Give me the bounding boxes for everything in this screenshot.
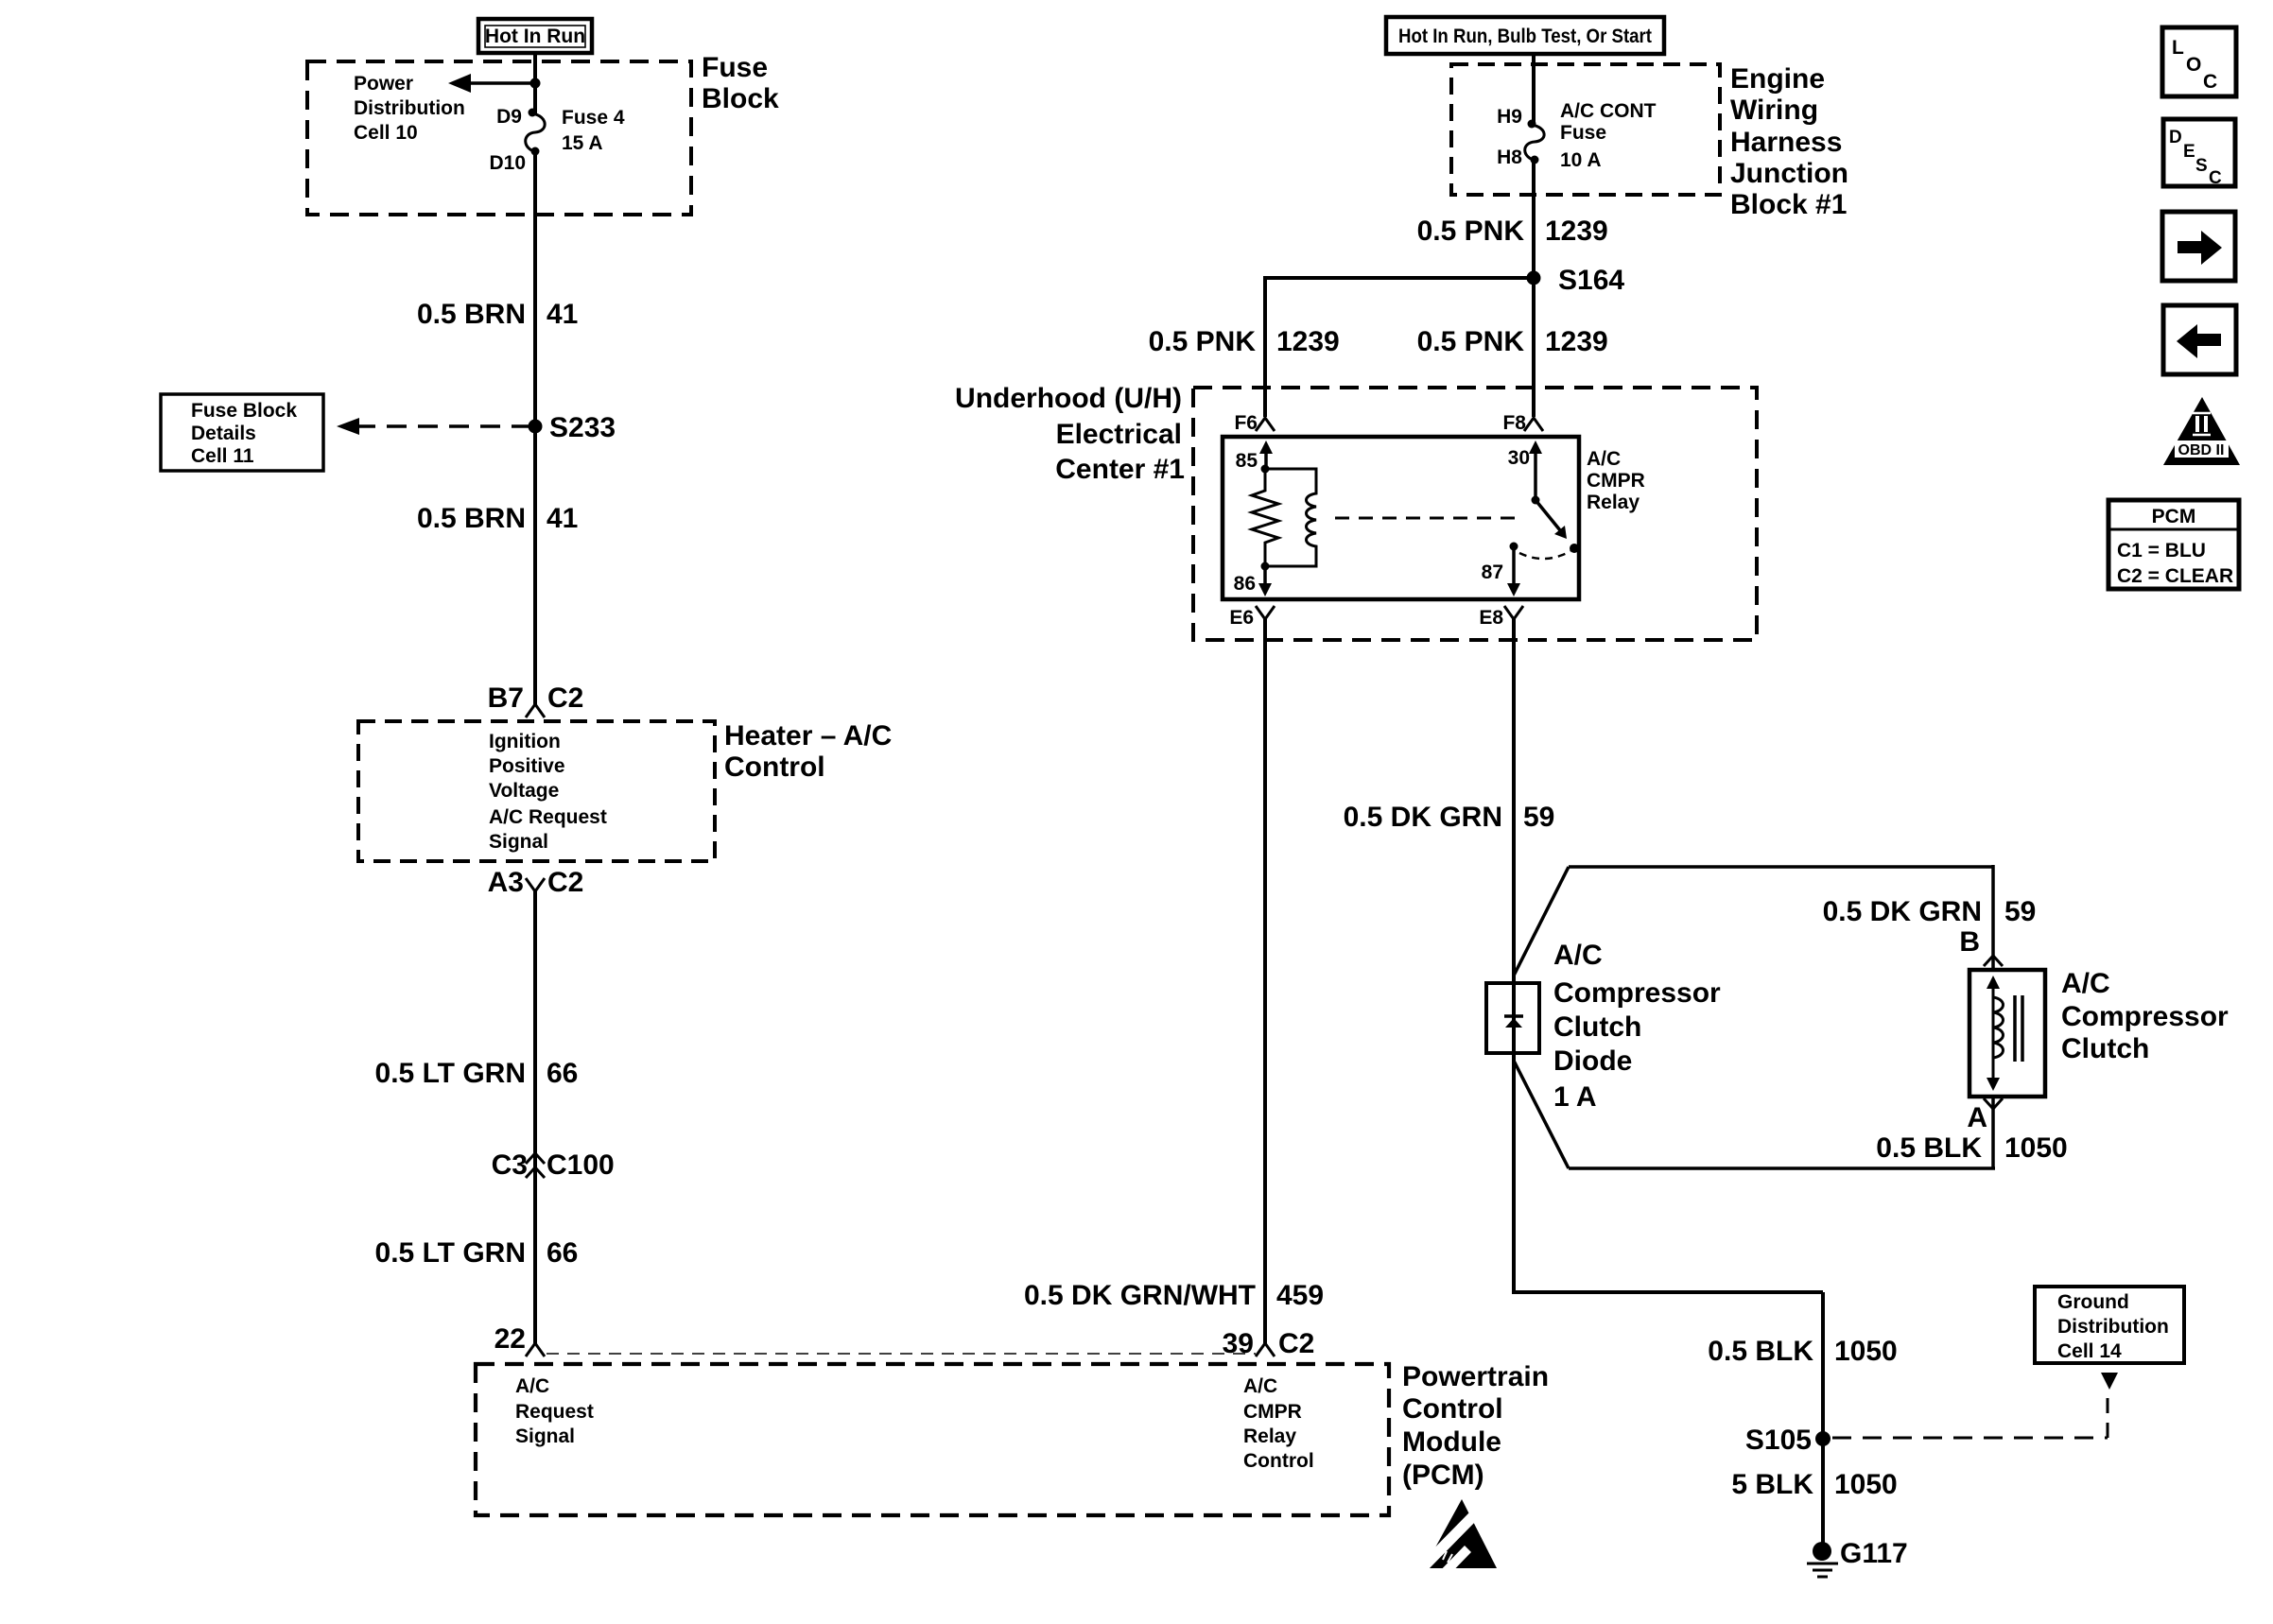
clutch coil and plates — [1987, 976, 2022, 1091]
svg-text:C100: C100 — [547, 1149, 615, 1181]
svg-text:Hot In Run, Bulb Test, Or Star: Hot In Run, Bulb Test, Or Start — [1398, 26, 1652, 47]
svg-text:1050: 1050 — [1834, 1469, 1898, 1500]
svg-text:22: 22 — [495, 1323, 526, 1355]
svg-text:Power: Power — [354, 73, 413, 95]
label pin A/C Request Signal (PCM) — [515, 1375, 594, 1447]
wire 0.5 BRN 41 from fuse to B7 — [533, 151, 537, 704]
svg-text:1239: 1239 — [1545, 216, 1608, 247]
svg-text:(PCM): (PCM) — [1402, 1460, 1484, 1491]
svg-text:Fuse: Fuse — [702, 52, 768, 83]
svg-text:C: C — [2203, 71, 2217, 93]
svg-text:Cell 11: Cell 11 — [191, 445, 254, 467]
svg-text:66: 66 — [547, 1237, 578, 1269]
label 0.5 BLK 1050 clutch — [1876, 1132, 2067, 1164]
icon OBD II triangle — [2163, 397, 2240, 465]
label Fuse Block — [702, 52, 779, 114]
pin 87 (relay NO contact) — [1482, 543, 1520, 597]
svg-text:Diode: Diode — [1553, 1045, 1632, 1077]
svg-text:C1 = BLU: C1 = BLU — [2117, 540, 2206, 561]
label Engine Wiring Harness Junction Block #1 — [1730, 63, 1848, 220]
label 0.5 LT GRN 66 lower — [375, 1237, 579, 1269]
svg-text:1239: 1239 — [1276, 326, 1340, 357]
svg-text:C: C — [2209, 168, 2222, 188]
pin 22 connector into PCM — [495, 1323, 545, 1356]
svg-text:L: L — [2172, 37, 2184, 59]
svg-text:30: 30 — [1508, 447, 1530, 469]
svg-text:CMPR: CMPR — [1243, 1401, 1302, 1423]
label A/C Compressor Clutch — [2061, 968, 2229, 1064]
icon LOC box — [2162, 27, 2236, 96]
svg-text:E: E — [2183, 142, 2195, 162]
label pins Ignition Positive Voltage / A/C Request Signal — [489, 731, 607, 853]
svg-text:0.5 DK GRN/WHT: 0.5 DK GRN/WHT — [1024, 1280, 1256, 1311]
svg-text:59: 59 — [1523, 802, 1554, 833]
label 0.5 DK GRN/WHT 459 — [1024, 1280, 1324, 1311]
pin E8 connector — [1479, 606, 1523, 629]
svg-text:0.5 PNK: 0.5 PNK — [1417, 216, 1525, 247]
label 5 BLK 1050 — [1731, 1469, 1897, 1500]
ESD warning symbol — [1417, 1499, 1497, 1584]
svg-text:A/C: A/C — [1243, 1375, 1277, 1397]
svg-text:0.5 BLK: 0.5 BLK — [1708, 1336, 1813, 1367]
pin D10 — [489, 147, 539, 175]
icon back arrow box — [2163, 305, 2236, 374]
pin H8 — [1497, 147, 1538, 168]
svg-text:A/C: A/C — [1587, 448, 1621, 470]
label 0.5 PNK 1239 left branch — [1149, 326, 1340, 357]
node S105 splice — [1745, 1425, 1831, 1456]
svg-text:G117: G117 — [1840, 1538, 1908, 1569]
svg-text:Relay: Relay — [1243, 1425, 1296, 1447]
fuse F4 element (s-curve) — [526, 113, 545, 152]
svg-text:0.5 BLK: 0.5 BLK — [1876, 1132, 1982, 1164]
svg-text:Junction: Junction — [1730, 158, 1848, 189]
svg-text:C2: C2 — [547, 682, 583, 714]
wire from Hot In Run to fuse — [533, 53, 537, 114]
svg-text:59: 59 — [2004, 896, 2036, 927]
pin H9 — [1497, 106, 1536, 129]
svg-text:41: 41 — [547, 299, 578, 330]
icon DESC box — [2163, 119, 2235, 188]
label Powertrain Control Module (PCM) — [1402, 1361, 1549, 1491]
label A/C CMPR Relay — [1587, 448, 1645, 513]
svg-text:A/C: A/C — [1553, 940, 1603, 971]
svg-text:Block #1: Block #1 — [1730, 189, 1847, 220]
wire 0.5 PNK 1239 from fuse to S164 — [1532, 160, 1536, 417]
svg-text:C2: C2 — [547, 867, 583, 898]
node junction dot at fuse feed — [530, 78, 541, 89]
svg-text:Cell 10: Cell 10 — [354, 122, 418, 144]
svg-text:1239: 1239 — [1545, 326, 1608, 357]
pin A connector — [1967, 1098, 2003, 1133]
wire arrow to Power Distribution — [448, 74, 535, 93]
svg-text:Voltage: Voltage — [489, 780, 559, 802]
svg-text:5 BLK: 5 BLK — [1731, 1469, 1813, 1500]
svg-text:A/C: A/C — [2061, 968, 2110, 999]
pin 30 (relay common) — [1508, 441, 1542, 505]
diode A/C compressor clutch diode box — [1486, 983, 1539, 1053]
svg-text:Center #1: Center #1 — [1055, 454, 1185, 485]
svg-text:10 A: 10 A — [1560, 149, 1602, 171]
pin 39 C2 connector — [1223, 1328, 1315, 1359]
PCM dashed box — [476, 1364, 1389, 1515]
svg-text:B: B — [1959, 926, 1980, 958]
heater a/c control dashed box — [358, 721, 715, 861]
label Heater - A/C Control — [724, 720, 892, 783]
svg-text:66: 66 — [547, 1058, 578, 1089]
svg-text:Powertrain: Powertrain — [1402, 1361, 1549, 1392]
svg-text:Engine: Engine — [1730, 63, 1825, 95]
pin B connector — [1959, 926, 2003, 966]
svg-text:0.5 PNK: 0.5 PNK — [1417, 326, 1525, 357]
svg-text:Compressor: Compressor — [2061, 1001, 2229, 1032]
node Fuse Block Details Cell 11 box — [161, 394, 323, 471]
svg-text:Compressor: Compressor — [1553, 977, 1721, 1009]
wire 0.5 DK GRN/WHT 459 from E6 to PCM pin 39 — [1263, 619, 1267, 1343]
node Ground Distribution Cell 14 box — [2035, 1287, 2184, 1363]
svg-text:S233: S233 — [549, 412, 616, 443]
svg-text:A: A — [1967, 1102, 1987, 1133]
A/C compressor clutch box — [1969, 970, 2045, 1097]
wire into A/C CONT fuse — [1532, 54, 1536, 124]
svg-text:Ignition: Ignition — [489, 731, 561, 752]
label 0.5 BRN 41 lower — [417, 503, 578, 534]
svg-text:Module: Module — [1402, 1426, 1501, 1458]
svg-text:Control: Control — [724, 752, 825, 783]
svg-text:S: S — [2195, 156, 2208, 176]
label 0.5 BRN 41 upper — [417, 299, 578, 330]
fuse block dashed box — [307, 61, 691, 215]
svg-text:C2: C2 — [1278, 1328, 1314, 1359]
engine wiring harness junction block dashed box — [1451, 64, 1720, 195]
svg-text:Distribution: Distribution — [2057, 1316, 2169, 1338]
label 0.5 DK GRN 59 clutch — [1823, 896, 2037, 927]
svg-text:15 A: 15 A — [562, 132, 603, 154]
svg-text:1 A: 1 A — [1553, 1081, 1597, 1113]
svg-text:F6: F6 — [1234, 412, 1258, 434]
fuse A/C CONT element (s-curve) — [1525, 125, 1544, 161]
label Underhood (U/H) Electrical Center #1 — [955, 383, 1185, 485]
svg-text:E8: E8 — [1479, 607, 1503, 629]
wire dashed to Ground Distribution — [1832, 1373, 2118, 1438]
svg-text:D10: D10 — [489, 152, 526, 174]
inductor relay coil — [1265, 469, 1316, 566]
svg-text:A/C CONT: A/C CONT — [1560, 100, 1657, 122]
pin F8 connector — [1502, 412, 1543, 434]
relay actuation dashed line — [1335, 517, 1522, 520]
svg-text:39: 39 — [1223, 1328, 1254, 1359]
svg-text:0.5 BRN: 0.5 BRN — [417, 503, 526, 534]
svg-text:E6: E6 — [1229, 607, 1254, 629]
svg-text:Heater – A/C: Heater – A/C — [724, 720, 892, 752]
underhood electrical center dashed box — [1193, 388, 1757, 640]
svg-text:Underhood (U/H): Underhood (U/H) — [955, 383, 1182, 414]
label 0.5 LT GRN 66 upper — [375, 1058, 579, 1089]
svg-text:Details: Details — [191, 423, 256, 444]
svg-text:Positive: Positive — [489, 755, 565, 777]
svg-text:Block: Block — [702, 83, 779, 114]
svg-text:Fuse: Fuse — [1560, 122, 1606, 144]
relay switch travel dashed arc — [1519, 551, 1570, 559]
resistor (relay suppression) — [1252, 469, 1278, 566]
svg-text:Signal: Signal — [515, 1425, 575, 1447]
node S164 splice — [1527, 265, 1625, 296]
svg-text:87: 87 — [1482, 561, 1503, 583]
svg-text:459: 459 — [1276, 1280, 1324, 1311]
wire 0.5 BLK 1050 down to S105 — [1512, 1290, 1823, 1551]
svg-text:Request: Request — [515, 1401, 594, 1423]
svg-text:85: 85 — [1236, 450, 1258, 472]
svg-text:CMPR: CMPR — [1587, 470, 1645, 492]
node S233 splice — [529, 412, 616, 443]
svg-text:Fuse Block: Fuse Block — [191, 400, 297, 422]
svg-text:A/C Request: A/C Request — [489, 806, 607, 828]
label 0.5 BLK 1050 — [1708, 1336, 1897, 1367]
svg-text:B7: B7 — [488, 682, 524, 714]
svg-text:H8: H8 — [1497, 147, 1522, 168]
pin 85 (relay coil +) — [1236, 441, 1273, 474]
svg-text:S164: S164 — [1558, 265, 1624, 296]
svg-text:Clutch: Clutch — [1553, 1011, 1641, 1043]
label pin A/C CMPR Relay Control (PCM) — [1243, 1375, 1314, 1472]
svg-text:OBD II: OBD II — [2178, 442, 2225, 458]
node Hot In Run (power feed box) — [478, 19, 592, 53]
label 0.5 PNK 1239 right branch — [1417, 326, 1608, 357]
svg-text:Control: Control — [1402, 1393, 1503, 1425]
svg-text:O: O — [2186, 54, 2201, 76]
relay switch blade — [1536, 500, 1579, 553]
wire 0.5 LT GRN 66 from A3 to C100 — [533, 891, 537, 1343]
svg-text:F8: F8 — [1502, 412, 1526, 434]
svg-text:0.5 DK GRN: 0.5 DK GRN — [1344, 802, 1502, 833]
relay A/C CMPR box — [1223, 437, 1579, 599]
label 0.5 PNK 1239 top — [1417, 216, 1608, 247]
svg-text:Cell 14: Cell 14 — [2057, 1340, 2122, 1362]
pin A3 C2 connector — [488, 867, 584, 898]
svg-text:0.5 DK GRN: 0.5 DK GRN — [1823, 896, 1982, 927]
svg-text:D9: D9 — [496, 106, 522, 128]
svg-text:C2 = CLEAR: C2 = CLEAR — [2117, 565, 2233, 587]
svg-text:A3: A3 — [488, 867, 524, 898]
svg-text:41: 41 — [547, 503, 578, 534]
legend PCM connector colors box — [2108, 500, 2239, 589]
pin D9 — [496, 106, 536, 128]
svg-text:0.5 PNK: 0.5 PNK — [1149, 326, 1257, 357]
svg-text:86: 86 — [1234, 573, 1256, 595]
svg-text:Electrical: Electrical — [1056, 419, 1182, 450]
svg-text:Fuse 4: Fuse 4 — [562, 107, 625, 129]
ground G117 — [1807, 1538, 1908, 1577]
svg-text:1050: 1050 — [1834, 1336, 1898, 1367]
pin F6 connector — [1234, 412, 1275, 434]
svg-text:Clutch: Clutch — [2061, 1033, 2149, 1064]
label A/C Compressor Clutch Diode 1 A — [1553, 940, 1721, 1113]
pin 86 (relay coil -) — [1234, 562, 1272, 597]
svg-text:Ground: Ground — [2057, 1291, 2129, 1313]
svg-text:Control: Control — [1243, 1450, 1314, 1472]
wire branch S164 to F6 — [1265, 276, 1534, 417]
svg-text:0.5 BRN: 0.5 BRN — [417, 299, 526, 330]
svg-text:Wiring: Wiring — [1730, 95, 1818, 126]
svg-text:D: D — [2169, 128, 2182, 147]
svg-text:C3: C3 — [492, 1149, 528, 1181]
svg-text:0.5 LT GRN: 0.5 LT GRN — [375, 1058, 526, 1089]
label A/C CONT Fuse 10 A — [1560, 100, 1657, 171]
svg-text:PCM: PCM — [2152, 506, 2196, 527]
icon forward arrow box — [2162, 212, 2235, 281]
svg-text:Signal: Signal — [489, 831, 548, 853]
pin B7 C2 connector — [488, 682, 584, 717]
svg-text:0.5 LT GRN: 0.5 LT GRN — [375, 1237, 526, 1269]
wire branch to clutch B (top) — [1514, 865, 1993, 976]
svg-text:Relay: Relay — [1587, 492, 1640, 513]
pin C3 C100 pass-through connector — [492, 1149, 615, 1181]
svg-text:Harness: Harness — [1730, 127, 1842, 158]
pin E6 connector — [1229, 606, 1275, 629]
svg-text:A/C: A/C — [515, 1375, 549, 1397]
label Fuse 4 15 A — [562, 107, 625, 154]
svg-text:S105: S105 — [1745, 1425, 1812, 1456]
svg-text:Hot In Run: Hot In Run — [485, 26, 585, 47]
wire 0.5 DK GRN 59 from E8 down — [1512, 619, 1516, 1292]
wire from clutch A to ground branch — [1514, 1061, 1995, 1168]
svg-text:1050: 1050 — [2004, 1132, 2068, 1164]
node Hot In Run Bulb Test Or Start (power feed box) — [1386, 17, 1664, 54]
wire dashed arrow to Fuse Block Details — [337, 418, 531, 435]
wire thin dashed link pin22 to pin39 — [547, 1353, 1256, 1355]
label 0.5 DK GRN 59 — [1344, 802, 1555, 833]
svg-text:Distribution: Distribution — [354, 97, 465, 119]
label Power Distribution Cell 10 — [354, 73, 465, 144]
svg-text:H9: H9 — [1497, 106, 1522, 128]
